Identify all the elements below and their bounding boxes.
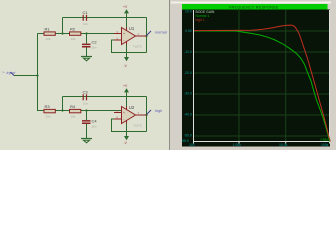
svg-text:-50.0: -50.0	[184, 133, 192, 137]
wire stage2 signal row	[38, 110, 122, 112]
node R1-R2 junction	[61, 32, 63, 34]
svg-text:10k: 10k	[71, 37, 76, 41]
node input junction	[36, 74, 38, 76]
wire C4 drop	[86, 111, 88, 139]
node C2 tap	[85, 32, 87, 34]
svg-text:1.00k: 1.00k	[233, 143, 242, 147]
svg-text:normal: normal	[155, 30, 167, 34]
svg-text:TL072: TL072	[133, 123, 142, 127]
terminal IN	[3, 70, 17, 76]
svg-text:-40.0: -40.0	[184, 112, 192, 116]
wire riser to C1 row	[62, 18, 64, 34]
terminal output1	[147, 30, 167, 35]
power -V U2	[124, 124, 130, 145]
svg-text:high 1: high 1	[196, 18, 205, 22]
node output U2	[145, 114, 147, 116]
svg-text:10n: 10n	[83, 22, 88, 26]
wire input horizontal	[14, 75, 38, 77]
graph window frame	[170, 0, 336, 150]
svg-text:C1: C1	[83, 10, 89, 15]
wire output riser stage2	[146, 97, 148, 132]
svg-text:R4: R4	[70, 104, 76, 109]
node output U1	[145, 35, 147, 37]
axis bottom	[194, 141, 331, 143]
svg-text:10.0: 10.0	[185, 10, 192, 14]
axis ticks	[194, 142, 330, 144]
svg-text:FREQUENCY RESPONSE: FREQUENCY RESPONSE	[229, 6, 279, 10]
svg-text:+V: +V	[123, 84, 128, 88]
power +V U1	[123, 5, 129, 28]
svg-text:R1: R1	[45, 27, 51, 32]
svg-text:C2: C2	[92, 40, 98, 45]
terminal output2	[147, 109, 163, 115]
axis left	[193, 10, 195, 142]
svg-text:input: input	[7, 70, 17, 75]
wire output riser	[146, 18, 148, 53]
svg-text:+: +	[123, 111, 125, 115]
wire C2 drop	[86, 34, 88, 57]
svg-text:R2: R2	[70, 27, 76, 32]
svg-text:TL072: TL072	[133, 44, 142, 48]
svg-text:-10.0: -10.0	[184, 50, 192, 54]
capacitor C4	[82, 119, 97, 129]
wire feedback loop U2	[112, 119, 147, 132]
gridlines vertical	[239, 10, 286, 142]
graph title bar	[182, 4, 328, 10]
op-amp U2	[114, 104, 147, 128]
ground stage1	[81, 57, 92, 61]
node C4 tap	[85, 109, 87, 111]
svg-text:0.00: 0.00	[185, 29, 192, 33]
svg-text:+V: +V	[123, 5, 128, 9]
wire left vertical bus	[37, 34, 39, 112]
svg-text:100k: 100k	[321, 143, 329, 147]
svg-text:>: >	[3, 71, 5, 75]
wire riser to C3 row	[62, 97, 64, 111]
wire stage1 signal row	[38, 33, 122, 35]
svg-text:-: -	[123, 118, 124, 122]
node R3-R4 junction	[61, 109, 63, 111]
capacitor C1	[83, 10, 89, 26]
svg-text:C3: C3	[83, 89, 89, 94]
power -V U1	[124, 45, 130, 69]
svg-text:10.0k: 10.0k	[279, 143, 288, 147]
svg-text:-20.0: -20.0	[184, 71, 192, 75]
capacitor C2	[82, 40, 97, 50]
ground stage2	[81, 139, 92, 143]
svg-text:-30.0: -30.0	[184, 92, 192, 96]
trace green normal	[194, 31, 330, 142]
svg-text:U2: U2	[129, 105, 135, 110]
svg-text:10n: 10n	[92, 45, 97, 49]
op-amp U1	[114, 25, 147, 49]
svg-text:C4: C4	[92, 119, 98, 124]
svg-text:-55.0: -55.0	[181, 139, 189, 143]
y labels	[181, 10, 192, 144]
power +V U2	[123, 84, 129, 106]
svg-text:U1: U1	[129, 26, 135, 31]
resistor R1	[44, 27, 55, 41]
plot background	[182, 10, 330, 147]
svg-text:10k: 10k	[46, 114, 51, 118]
x labels	[189, 143, 329, 147]
svg-text:10k: 10k	[46, 37, 51, 41]
gridlines horizontal	[194, 31, 330, 136]
trace red high	[194, 25, 330, 141]
svg-text:+: +	[123, 32, 125, 36]
wire C3 top row	[63, 96, 147, 98]
schematic background	[0, 0, 336, 150]
resistor R3	[44, 104, 55, 118]
capacitor C3	[83, 89, 89, 105]
svg-text:10k: 10k	[71, 114, 76, 118]
svg-text:-: -	[123, 39, 124, 43]
svg-text:10n: 10n	[83, 101, 88, 105]
resistor R2	[70, 27, 81, 41]
wire C1 top row	[63, 17, 147, 19]
resistor R4	[70, 104, 81, 118]
svg-text:100: 100	[189, 143, 195, 147]
axis right	[329, 10, 331, 142]
svg-text:R3: R3	[45, 104, 51, 109]
svg-text:10n: 10n	[92, 124, 97, 128]
wire feedback loop U1	[112, 40, 147, 53]
svg-text:high: high	[155, 109, 162, 113]
svg-text:FREQ: FREQ	[321, 138, 331, 142]
